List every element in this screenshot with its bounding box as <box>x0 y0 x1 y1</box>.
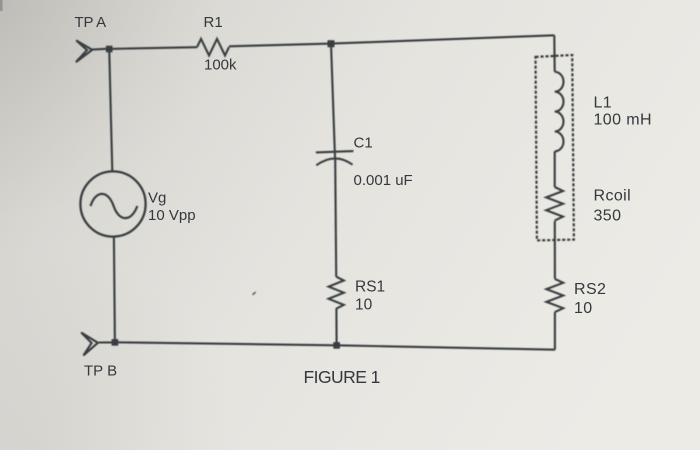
svg-text:L1: L1 <box>594 95 613 112</box>
node bottom-middle dot <box>333 342 340 349</box>
source Vg circle <box>80 171 145 236</box>
wire Rcoil to RS2 <box>554 221 556 279</box>
resistor RS1 <box>329 277 344 309</box>
test point TP A <box>76 40 92 62</box>
node C1-top dot <box>328 40 335 47</box>
svg-text:100k: 100k <box>204 57 237 74</box>
wire R1 to node C <box>229 44 331 47</box>
svg-text:RS2: RS2 <box>574 281 606 298</box>
wire RS2 to bottom corner <box>554 312 556 350</box>
svg-text:10: 10 <box>574 300 593 317</box>
resistor R1 <box>197 39 229 56</box>
capacitor C1 top plate <box>316 151 354 152</box>
wire node C to right corner <box>331 35 554 43</box>
test point TP B <box>81 333 98 356</box>
svg-text:TP A: TP A <box>75 14 107 31</box>
svg-text:RS1: RS1 <box>355 279 385 296</box>
wire right corner to L1 <box>553 35 556 72</box>
svg-text:10: 10 <box>355 297 373 314</box>
source Vg sine wave <box>91 194 138 218</box>
svg-text:100 mH: 100 mH <box>594 112 652 129</box>
svg-text:TP B: TP B <box>84 363 117 380</box>
wire left vertical upper <box>109 49 112 172</box>
inductor L1 <box>555 72 564 152</box>
svg-text:C1: C1 <box>354 135 373 152</box>
node B dot <box>112 339 119 346</box>
svg-text:Rcoil: Rcoil <box>594 188 632 205</box>
wire C1 branch upper <box>331 44 335 158</box>
wire bottom right segment <box>337 345 555 349</box>
wire TP A to node <box>92 48 107 51</box>
dashed box around L1 and Rcoil <box>536 55 574 240</box>
capacitor C1 curved plate <box>316 158 352 165</box>
svg-text:Vg: Vg <box>148 190 166 207</box>
resistor Rcoil <box>546 187 563 221</box>
wire TP B to node <box>99 341 115 343</box>
wire L1 to Rcoil <box>554 151 556 187</box>
wire left vertical lower <box>114 237 115 343</box>
wire RS1 to bottom node <box>335 309 337 346</box>
svg-text:10 Vpp: 10 Vpp <box>148 207 196 224</box>
resistor RS2 <box>546 279 563 312</box>
wire top left segment <box>109 47 197 49</box>
svg-text:0.001 uF: 0.001 uF <box>354 172 413 189</box>
node A dot <box>106 46 113 53</box>
wire C1 to RS1 <box>335 159 336 277</box>
svg-text:R1: R1 <box>204 14 223 31</box>
svg-text:350: 350 <box>594 207 622 224</box>
svg-text:FIGURE 1: FIGURE 1 <box>304 367 380 387</box>
wire bottom left segment <box>115 342 337 345</box>
